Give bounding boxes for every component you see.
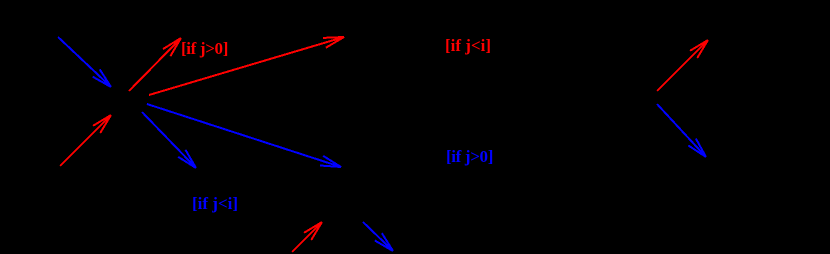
wire: blue transition arrow A into left state — [58, 37, 111, 87]
svg-text:[if j<i]: [if j<i] — [192, 194, 238, 213]
wire: red transition arrow I into bottom state — [292, 222, 322, 252]
wire: red transition arrow C (guard [if j>0]) — [129, 38, 181, 91]
svg-text:[if j>0]: [if j>0] — [446, 147, 493, 166]
wire: red transition arrow G from right state — [657, 40, 708, 91]
wire: blue transition arrow J out of bottom state — [363, 222, 393, 251]
svg-text:[if j<i]: [if j<i] — [445, 36, 491, 55]
wire: long red transition arrow D to upper right — [149, 37, 344, 95]
wire: long blue transition arrow F into bottom state — [147, 104, 341, 167]
wire: blue transition arrow E (guard [if j<i]) — [142, 112, 196, 168]
wire: red transition arrow B into left state — [60, 115, 111, 166]
wire: blue transition arrow H from right state — [657, 104, 706, 157]
svg-text:[if j>0]: [if j>0] — [181, 39, 228, 58]
